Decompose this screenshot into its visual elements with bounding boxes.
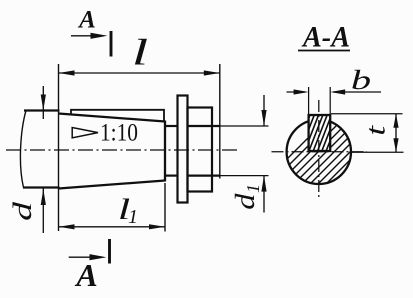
svg-text:l: l (132, 32, 148, 73)
svg-text:1:10: 1:10 (100, 120, 138, 147)
svg-text:1: 1 (128, 206, 138, 228)
svg-text:A: A (77, 6, 96, 33)
svg-text:d: d (9, 201, 38, 221)
svg-text:d: d (230, 193, 260, 209)
svg-text:1: 1 (243, 184, 263, 193)
svg-text:b: b (351, 65, 371, 95)
svg-text:A: A (74, 257, 97, 293)
svg-text:t: t (360, 124, 390, 135)
svg-text:A-A: A-A (301, 20, 350, 53)
